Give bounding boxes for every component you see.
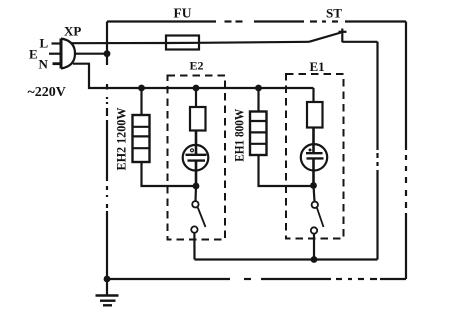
svg-text:EH2 1200W: EH2 1200W	[115, 107, 129, 170]
node ground junction	[104, 276, 111, 283]
svg-text:E1: E1	[310, 59, 325, 74]
svg-text:E2: E2	[190, 59, 204, 73]
node bottom junction	[311, 256, 318, 263]
node E1 switch junction	[310, 182, 317, 189]
wire ST to right drop	[342, 41, 377, 43]
node E2 switch junction	[193, 183, 200, 190]
enclosure box E2 (dashed)	[168, 76, 226, 240]
svg-text:ST: ST	[326, 5, 342, 20]
svg-text:E: E	[29, 47, 38, 62]
lamp HL1 (neon)	[301, 128, 327, 186]
ground	[96, 279, 119, 305]
wire L: plug to fuse to ST	[72, 42, 309, 43]
wire ST drop vertical	[376, 42, 378, 260]
svg-text:XP: XP	[64, 24, 81, 39]
svg-text:~220V: ~220V	[28, 85, 66, 100]
svg-text:N: N	[39, 56, 49, 71]
switch S2	[191, 186, 205, 260]
node EH1 branch	[255, 85, 262, 92]
wire neutral drop to E1 resistor	[312, 88, 314, 102]
switch S1	[311, 186, 324, 260]
svg-text:FU: FU	[174, 6, 192, 21]
wire earth bottom line	[107, 278, 406, 280]
node EH2 branch	[138, 85, 145, 92]
node E2 lamp branch	[193, 85, 200, 92]
enclosure box E1 (dashed)	[286, 74, 344, 239]
wire N: plug down to neutral rail	[73, 64, 314, 88]
wire earth right edge	[405, 22, 407, 280]
wire earth top line	[107, 20, 406, 22]
svg-text:EH1 800W: EH1 800W	[233, 108, 247, 161]
switch ST contact	[339, 29, 347, 43]
resistor R2 (E2 lamp series)	[190, 88, 206, 131]
lamp HL2 (neon)	[183, 131, 209, 187]
heater EH2 1200W	[133, 88, 197, 186]
svg-text:L: L	[40, 36, 49, 51]
fuse FU	[166, 36, 199, 50]
wire bottom feed line	[195, 258, 378, 260]
wire E: plug to earth node	[74, 53, 107, 55]
switch ST lever	[309, 33, 341, 42]
plug XP	[49, 39, 75, 69]
wire earth vertical	[106, 22, 108, 280]
node earth junction	[104, 50, 111, 57]
resistor R1 (E1 lamp series)	[307, 102, 323, 128]
heater EH1 800W	[250, 88, 314, 186]
